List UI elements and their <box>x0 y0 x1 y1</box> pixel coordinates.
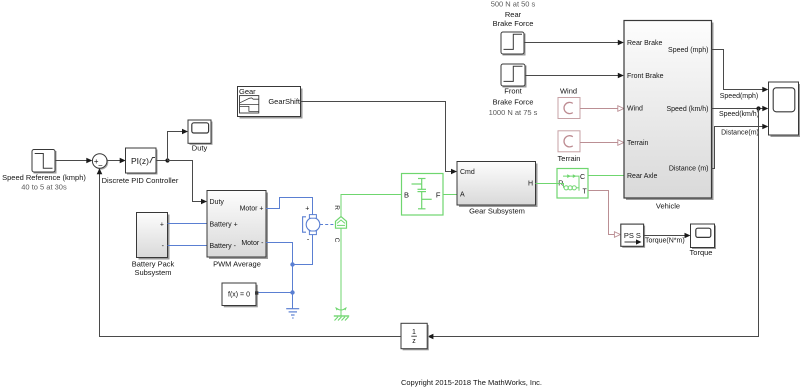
wire junction A down to junction B <box>292 265 294 293</box>
step source Speed Reference <box>32 150 57 174</box>
wire solver to junction B <box>259 292 293 294</box>
svg-text:+: + <box>305 206 309 213</box>
svg-text:PS S: PS S <box>624 231 641 240</box>
svg-text:Motor -: Motor - <box>241 240 264 247</box>
svg-text:f(x) = 0: f(x) = 0 <box>228 292 250 299</box>
svg-text:C: C <box>333 238 340 243</box>
wire Terrain C to Vehicle (physical signal) <box>580 140 624 146</box>
svg-text:R: R <box>333 205 340 210</box>
wire Vehicle Speed (mph) to scope <box>712 50 769 93</box>
wire Front Brake Force to Vehicle <box>525 73 624 79</box>
wire PS S to Torque scope <box>644 233 691 239</box>
svg-text:Wind: Wind <box>560 86 577 95</box>
step source Front Brake Force <box>501 64 527 88</box>
unit delay 1/z <box>401 323 429 350</box>
sensor rotational motion sensor <box>333 205 347 243</box>
wire GearShift to Gear Subsystem Cmd <box>301 102 458 175</box>
svg-text:Terrain: Terrain <box>627 140 649 147</box>
wire junction B to ground <box>292 293 294 309</box>
wire sensor C down to rotational reference <box>340 228 342 316</box>
mechanical rotational reference ground <box>334 308 349 321</box>
svg-text:Distance (m): Distance (m) <box>669 166 709 173</box>
wire wheel C to Vehicle Rear Axle (rotational) <box>588 175 624 177</box>
svg-text:Front: Front <box>504 87 522 96</box>
svg-text:Speed (km/h): Speed (km/h) <box>666 106 708 113</box>
svg-text:Vehicle: Vehicle <box>656 202 680 211</box>
svg-text:F: F <box>436 190 441 199</box>
svg-text:A: A <box>460 192 465 199</box>
wire battery plus (electrical) <box>168 223 208 225</box>
wire Rear Brake Force to Vehicle <box>524 40 624 46</box>
svg-text:Brake Force: Brake Force <box>493 19 534 28</box>
svg-text:Duty: Duty <box>210 199 225 206</box>
wire motor shaft (dashed) <box>320 224 335 226</box>
svg-text:Battery +: Battery + <box>210 221 238 228</box>
svg-text:Rear Axle: Rear Axle <box>627 173 657 180</box>
wire motor plus (electrical) <box>266 198 313 215</box>
subsystem Gear Subsystem <box>457 162 538 208</box>
svg-text:C: C <box>580 174 585 181</box>
svg-text:+: + <box>160 221 164 228</box>
svg-text:1: 1 <box>412 329 416 336</box>
svg-text:z: z <box>412 338 416 345</box>
svg-text:Torque: Torque <box>690 248 713 257</box>
svg-text:Brake Force: Brake Force <box>493 97 534 106</box>
svg-text:Front Brake: Front Brake <box>627 73 664 80</box>
constant block Terrain C <box>558 131 580 152</box>
wire Gear Subsystem H to wheel R (rotational) <box>536 183 558 185</box>
scope Duty <box>188 120 213 145</box>
svg-text:Speed (mph): Speed (mph) <box>668 47 708 54</box>
svg-text:PWM Average: PWM Average <box>213 259 261 268</box>
subsystem Battery Pack <box>137 213 170 260</box>
svg-text:Terrain: Terrain <box>558 154 581 163</box>
svg-text:PI(z): PI(z) <box>131 156 149 166</box>
svg-text:Subsystem: Subsystem <box>134 268 171 277</box>
junction dot on PID output <box>165 158 169 162</box>
motor DC Motor <box>303 206 320 244</box>
wire sensor R up to gear B (rotational) <box>341 195 402 217</box>
solver block f(x)=0 <box>222 283 258 307</box>
svg-text:Cmd: Cmd <box>460 169 475 176</box>
wire PID output to junction <box>156 160 168 162</box>
svg-text:Rear Brake: Rear Brake <box>627 40 663 47</box>
svg-text:T: T <box>583 189 588 196</box>
svg-text:Speed(km/h): Speed(km/h) <box>719 111 759 118</box>
svg-text:Gear: Gear <box>239 87 256 96</box>
svg-text:Distance(m): Distance(m) <box>721 130 759 137</box>
controller block PI(z) Discrete PID Controller <box>126 148 158 175</box>
wire feedback from km/h junction down to unit delay <box>427 109 758 340</box>
wire Vehicle Distance (m) to scope <box>712 124 769 169</box>
svg-text:Battery -: Battery - <box>210 243 237 250</box>
svg-text:−: − <box>98 161 103 170</box>
svg-text:40 to 5 at 30s: 40 to 5 at 30s <box>21 182 67 191</box>
converter PS-Simulink PS S <box>621 224 645 248</box>
svg-text:GearShift: GearShift <box>268 97 301 106</box>
wire gear F to Gear Subsystem A (rotational) <box>443 194 457 196</box>
scope Torque <box>691 224 717 249</box>
wire wheel T to PS-Simulink converter (physical signal) <box>588 191 620 238</box>
wire sum to PID <box>107 158 126 164</box>
svg-text:Speed Reference (kmph): Speed Reference (kmph) <box>2 173 86 182</box>
svg-text:Duty: Duty <box>192 144 208 153</box>
svg-text:Torque(N*m): Torque(N*m) <box>645 238 685 245</box>
constant block Wind C <box>558 98 580 119</box>
svg-text:Copyright 2015-2018 The MathWo: Copyright 2015-2018 The MathWorks, Inc. <box>401 378 542 387</box>
junction node Speed(km/h) feedback <box>756 106 760 110</box>
svg-text:H: H <box>528 181 533 188</box>
wire Wind C to Vehicle (physical signal) <box>580 106 624 112</box>
gear block Simple Gear <box>402 174 444 216</box>
svg-text:R: R <box>558 181 563 188</box>
svg-text:Motor +: Motor + <box>240 206 264 213</box>
junction node electrical A <box>290 262 294 266</box>
wire Vehicle Speed (km/h) to scope <box>712 106 769 112</box>
svg-text:500 N at 50 s: 500 N at 50 s <box>491 0 536 9</box>
svg-text:Wind: Wind <box>627 106 643 113</box>
svg-text:B: B <box>404 190 409 199</box>
step source Rear Brake Force <box>501 32 526 56</box>
electrical reference ground <box>286 309 299 318</box>
wire step to sum <box>55 158 92 164</box>
subsystem Vehicle <box>624 21 714 201</box>
wire battery minus (electrical) <box>168 245 208 247</box>
subsystem PWM Average <box>207 191 268 260</box>
svg-text:Speed(mph): Speed(mph) <box>720 93 759 100</box>
wire unit delay to sum (feedback) <box>97 168 401 336</box>
svg-text:Gear Subsystem: Gear Subsystem <box>469 206 525 215</box>
signal builder Gear / GearShift <box>238 87 303 119</box>
wire junction up to Duty scope <box>168 129 189 161</box>
junction node electrical B <box>290 290 294 294</box>
wire junction to PWM Duty input <box>168 161 208 205</box>
svg-text:1000 N at 75 s: 1000 N at 75 s <box>489 108 538 117</box>
wheel block torque sensor R C T <box>557 169 588 199</box>
wire motor bottom terminal to junction <box>293 235 313 265</box>
scope main <box>769 82 800 137</box>
wire motor minus (electrical) <box>266 243 293 265</box>
svg-text:Discrete PID Controller: Discrete PID Controller <box>102 176 179 185</box>
sum junction <box>92 154 108 170</box>
